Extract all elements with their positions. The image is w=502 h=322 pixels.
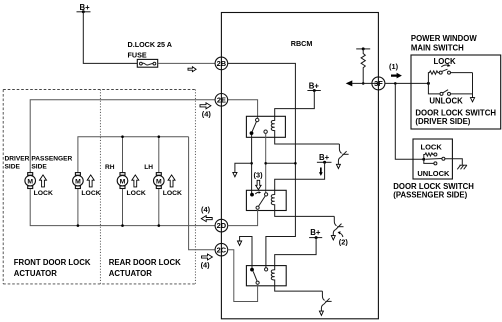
wire K2 output to 2D (228, 209, 258, 225)
ground arrow Q2 (331, 236, 335, 240)
arrow momentary action (441, 64, 450, 67)
ground continuation arrow driver switch (470, 98, 474, 102)
svg-text:RH: RH (105, 164, 115, 171)
svg-text:(DRIVER SIDE): (DRIVER SIDE) (415, 117, 470, 126)
relay K3 (246, 266, 286, 286)
connector 2E (215, 94, 228, 107)
svg-text:DRIVER: DRIVER (5, 156, 30, 163)
transistor Q2 (333, 216, 343, 235)
switch unlock contact passenger (424, 159, 437, 165)
ground arrow Q1 (336, 164, 340, 168)
svg-text:M: M (75, 178, 81, 185)
svg-text:M: M (27, 178, 33, 185)
svg-text:ACTUATOR: ACTUATOR (109, 269, 152, 278)
wire K1 coil to transistor Q1 (275, 137, 340, 144)
node bottom rail passenger junction (77, 224, 80, 227)
svg-text:(2): (2) (339, 238, 349, 247)
svg-text:REAR DOOR LOCK: REAR DOOR LOCK (109, 258, 181, 267)
relay K2 (246, 190, 286, 210)
B+ feed relay K2 coil (317, 153, 332, 164)
svg-text:PASSENGER: PASSENGER (31, 156, 72, 163)
svg-text:DOOR LOCK SWITCH: DOOR LOCK SWITCH (415, 108, 496, 117)
wire RH motor top drop (122, 137, 124, 173)
arrow indicator (2) (339, 233, 343, 237)
node bottom rail RH junction (121, 224, 124, 227)
arrow lock direction passenger (87, 175, 94, 187)
svg-text:2E: 2E (217, 95, 226, 104)
wire B+ to K2 coil (275, 162, 325, 190)
arrow lock direction LH (168, 175, 175, 187)
label DRIVER SIDE (5, 156, 30, 171)
wire bottom rail to connector 2D (30, 189, 215, 226)
B+ feed relay K1 coil (307, 81, 320, 92)
wire LH motor bottom drop (158, 189, 160, 226)
wire K2 coil to transistor Q2 (275, 211, 335, 217)
wire passenger motor bottom drop (77, 189, 79, 226)
wire fuse to connector 2B (158, 62, 216, 64)
B+ feed relay K3 coil (309, 228, 322, 239)
svg-text:FUSE: FUSE (128, 50, 147, 59)
wire K3 coil to transistor Q3 (275, 286, 323, 291)
motor M LH rear (154, 173, 165, 189)
node rail2-RH junction (121, 135, 124, 138)
node rail2-LH junction (158, 135, 161, 138)
svg-text:(4): (4) (201, 205, 211, 214)
wire top rail from 2E to driver motor (30, 100, 215, 173)
wire 3F row (352, 82, 378, 84)
label FRONT DOOR LOCK ACTUATOR (14, 258, 91, 278)
fuse D.LOCK 25 A label (128, 40, 172, 59)
ground continuation arrow (233, 172, 237, 176)
wire contact bus to 2B bus (266, 162, 296, 164)
svg-text:B+: B+ (309, 81, 320, 90)
wire branch to ground arrow (235, 163, 252, 172)
svg-text:LOCK: LOCK (127, 190, 146, 197)
arrow current down indicator (319, 168, 323, 176)
svg-text:POWER WINDOW: POWER WINDOW (411, 34, 477, 43)
svg-text:2D: 2D (217, 221, 227, 230)
passenger door lock switch box (413, 139, 452, 179)
node bus tie left (264, 162, 267, 165)
svg-text:LOCK: LOCK (434, 57, 456, 66)
svg-text:SIDE: SIDE (5, 163, 21, 170)
svg-text:LOCK: LOCK (421, 143, 443, 152)
wire rail2 passenger/RH/LH motor feed (78, 137, 189, 173)
svg-text:3F: 3F (374, 79, 383, 88)
wire 2B to internal bus (228, 63, 296, 267)
arrow out at 2C (202, 254, 213, 260)
svg-text:LOCK: LOCK (81, 190, 100, 197)
actuator dashed enclosure (3, 90, 195, 284)
svg-text:D.LOCK 25 A: D.LOCK 25 A (128, 40, 172, 49)
motor M driver side (25, 173, 36, 189)
svg-text:FRONT DOOR LOCK: FRONT DOOR LOCK (14, 258, 91, 267)
dashed divider front/rear actuator (99, 90, 101, 284)
svg-text:2B: 2B (217, 59, 226, 68)
arrow lock direction driver (40, 175, 47, 187)
svg-text:ACTUATOR: ACTUATOR (14, 269, 57, 278)
switch lever passenger (426, 158, 442, 161)
node branch to passenger switch (394, 82, 397, 85)
wire rail2 drop to connector 2C (189, 137, 216, 250)
arrow lock direction RH (132, 175, 139, 187)
connector 2C (215, 243, 228, 256)
wire B+ to K3 coil (275, 238, 316, 266)
svg-text:M: M (120, 178, 126, 185)
label REAR DOOR LOCK ACTUATOR (109, 258, 181, 278)
svg-text:LOCK: LOCK (163, 190, 182, 197)
svg-text:UNLOCK: UNLOCK (429, 97, 463, 106)
wire B+ to fuse (83, 12, 137, 64)
wire B+ to K1 coil (275, 91, 315, 117)
svg-text:(PASSENGER SIDE): (PASSENGER SIDE) (393, 191, 467, 200)
arrow out at 3F (391, 73, 402, 79)
arrow out at 2E (200, 103, 211, 109)
arrow in at 2D (201, 216, 212, 222)
node resistor to 3F (362, 82, 365, 85)
svg-text:MAIN SWITCH: MAIN SWITCH (411, 43, 464, 52)
label DOOR LOCK SWITCH (DRIVER SIDE) (415, 108, 496, 126)
wire K1 NC contact down to K2 contact (265, 133, 267, 192)
label POWER WINDOW MAIN SWITCH (411, 34, 477, 52)
node driver switch common (427, 82, 430, 85)
wire driver switch to ground arrow (472, 73, 474, 98)
switch lock contact driver (428, 69, 472, 83)
ground chassis symbol (457, 165, 467, 169)
svg-text:DOOR LOCK SWITCH: DOOR LOCK SWITCH (393, 182, 474, 191)
ground continuation arrow K3 (238, 241, 242, 245)
svg-text:(1): (1) (389, 62, 399, 71)
wire K3 common to continuation arrow (240, 237, 252, 270)
ground arrow Q3 (319, 311, 323, 315)
motor M passenger side (73, 173, 84, 189)
svg-text:LOCK: LOCK (34, 190, 53, 197)
connector 2B (215, 57, 228, 70)
wire 2E to relay K1 contact (228, 100, 258, 119)
transistor Q3 (321, 291, 331, 311)
RBCM module box (221, 13, 378, 319)
connector 3F (372, 77, 385, 90)
svg-text:UNLOCK: UNLOCK (417, 169, 450, 178)
svg-text:B+: B+ (310, 228, 321, 237)
wire 3F to door lock switches (385, 82, 429, 84)
node bottom rail LH junction (158, 224, 161, 227)
transistor Q1 (338, 144, 348, 164)
fuse F1 (137, 59, 157, 67)
label DOOR LOCK SWITCH (PASSENGER SIDE) (393, 182, 474, 200)
wire passenger switch to ground (445, 159, 462, 165)
node passenger switch common (422, 158, 425, 161)
svg-text:B+: B+ (319, 153, 330, 162)
svg-text:(4): (4) (201, 261, 211, 270)
switch unlock contact driver (428, 83, 472, 95)
svg-text:LH: LH (144, 164, 153, 171)
resistor R1 pull-up (356, 47, 370, 83)
svg-text:SIDE: SIDE (31, 163, 47, 170)
wire 2C to K3 switch (228, 250, 258, 302)
arrow current direction right (near fuse) (188, 67, 196, 72)
svg-text:B+: B+ (80, 3, 91, 12)
connector 2D (215, 219, 228, 232)
svg-text:M: M (156, 178, 162, 185)
svg-text:2C: 2C (217, 245, 227, 254)
motor M RH rear (117, 173, 128, 189)
node K1 common branch (250, 162, 253, 165)
wire branch down to passenger switch (395, 83, 424, 159)
wire RH motor bottom drop (122, 189, 124, 226)
driver door lock switch box (411, 55, 501, 129)
wire K1 common down to K2 (251, 135, 253, 195)
B+ battery terminal top-left (77, 3, 91, 13)
relay K1 (246, 116, 285, 137)
svg-text:(4): (4) (202, 109, 212, 118)
svg-text:RBCM: RBCM (291, 39, 313, 48)
node bus tie right (294, 162, 297, 165)
wire LH motor top drop (158, 137, 160, 173)
switch lock contact passenger (424, 153, 437, 159)
arrow down (3) (256, 180, 261, 189)
label PASSENGER SIDE (31, 156, 72, 171)
svg-text:(3): (3) (254, 171, 264, 180)
switch output contact passenger (442, 157, 445, 160)
arrow continuation left (346, 80, 353, 86)
